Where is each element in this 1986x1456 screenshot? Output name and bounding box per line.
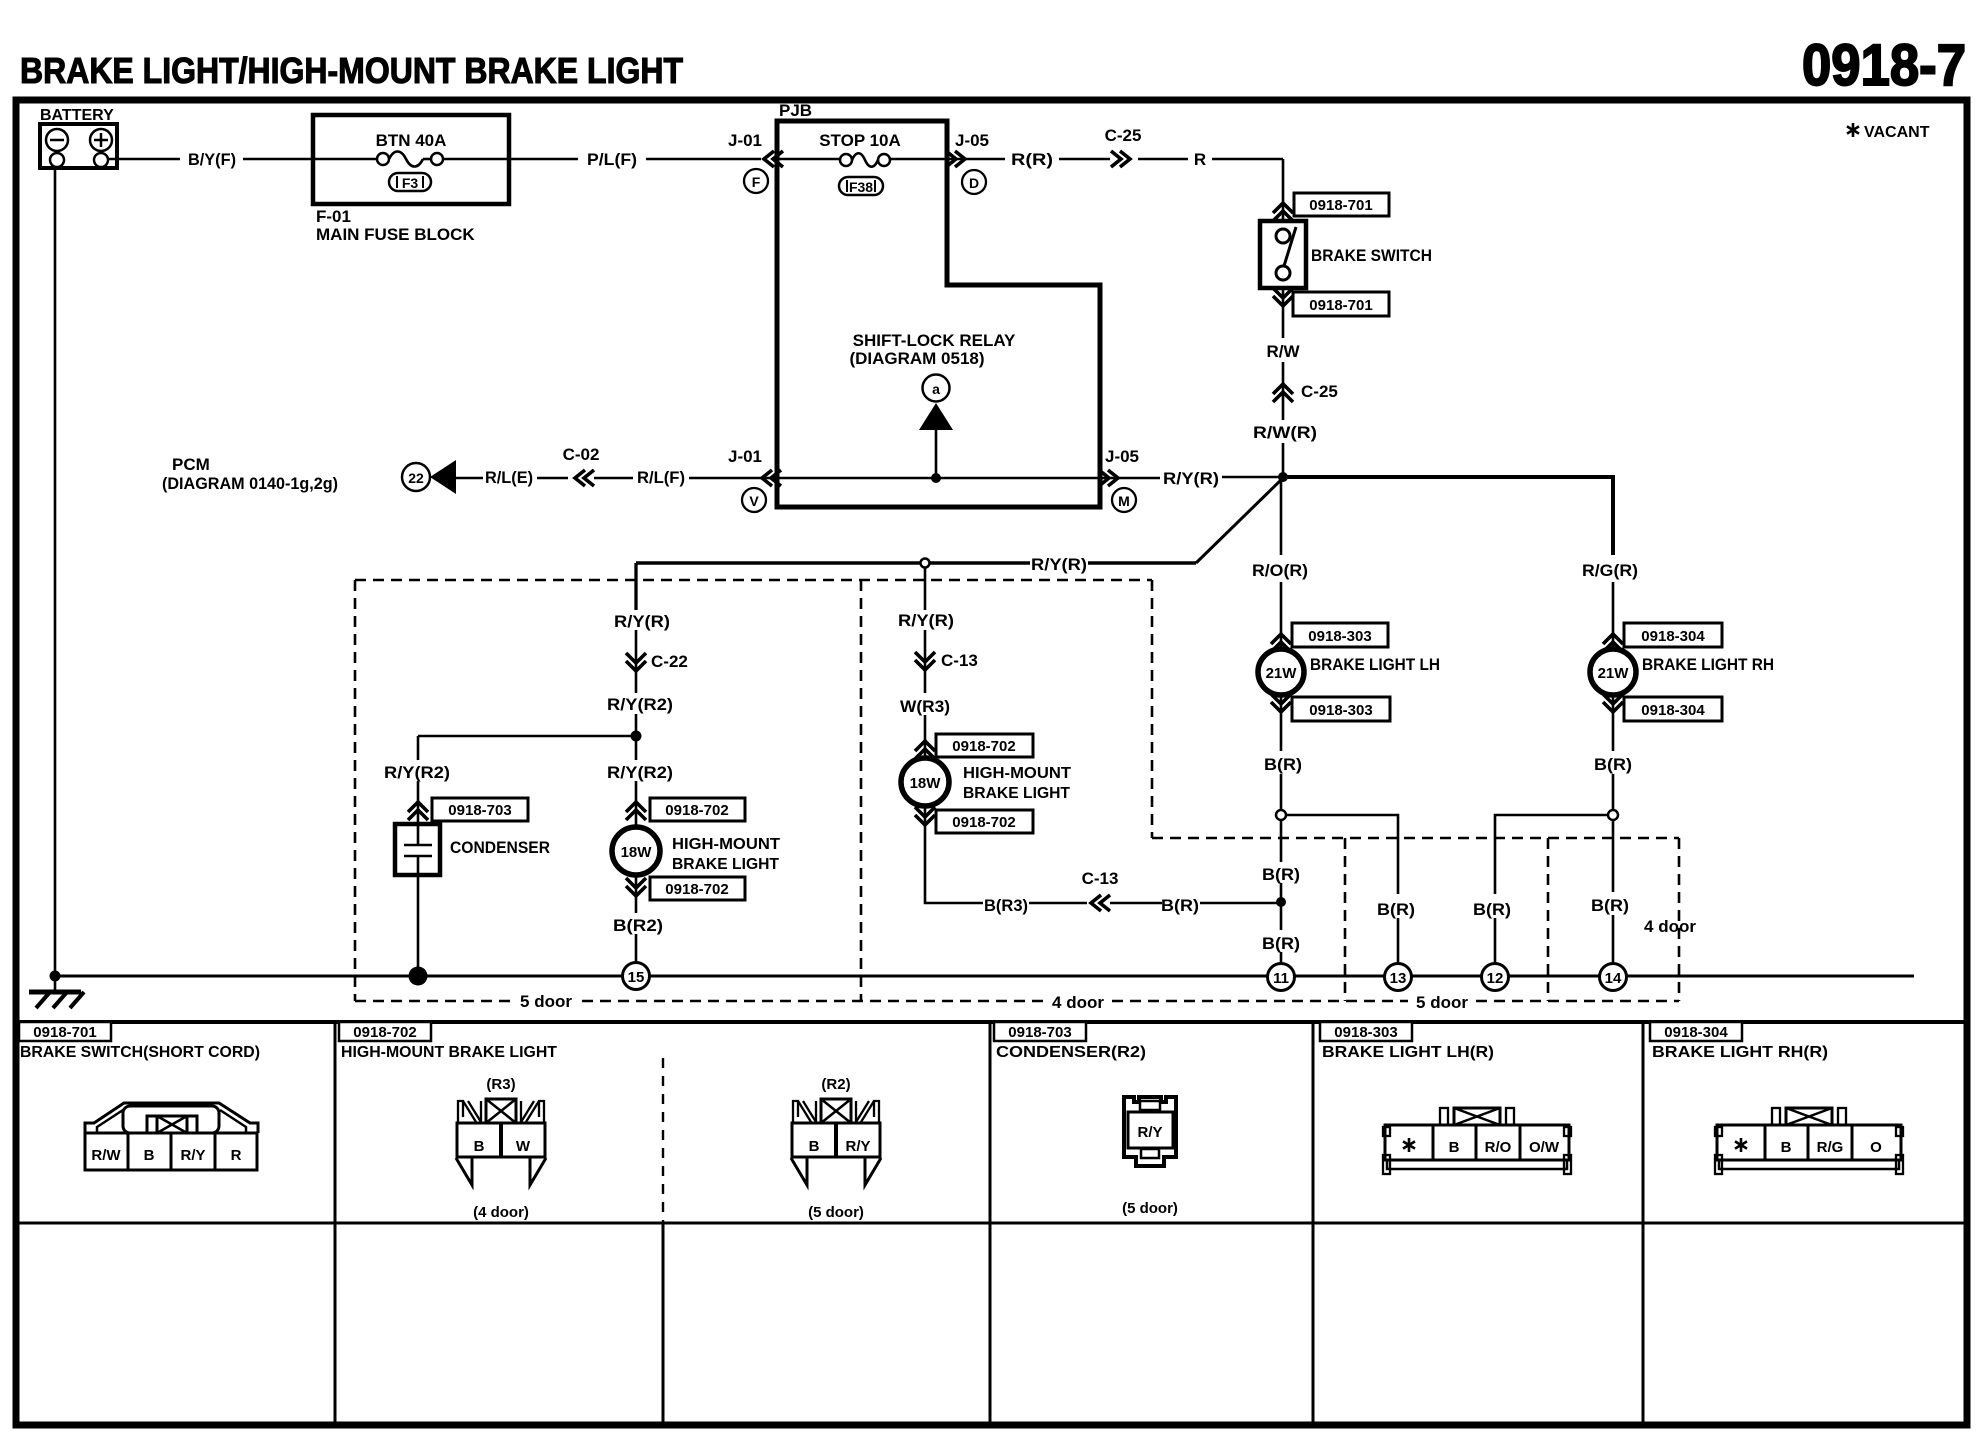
svg-text:(4 door): (4 door) [473,1204,529,1221]
wire B(R3) [925,806,983,903]
svg-text:B(R): B(R) [1377,900,1415,919]
wire battery minus to ground [54,167,57,976]
svg-text:R/W: R/W [91,1147,121,1164]
svg-text:(DIAGRAM 0518): (DIAGRAM 0518) [849,349,984,368]
svg-text:12: 12 [1487,970,1504,987]
wire condenser to ground [417,875,420,967]
connector marker 0918-701 above switch [1273,203,1293,221]
svg-text:J-05: J-05 [1105,447,1139,466]
brake switch [1260,221,1306,288]
trunk wire to brake light RH [1283,477,1613,555]
junction big dot ground [409,967,428,986]
wire R/L(E) [456,477,483,480]
svg-text:CONDENSER: CONDENSER [450,838,550,857]
svg-text:BRAKE LIGHT: BRAKE LIGHT [963,785,1070,802]
dashed vertical x1679 [1678,838,1681,1001]
table mid divider [16,1222,1967,1225]
terminal 13 [1385,964,1412,991]
wire across PJB [777,477,1100,480]
connector drawing brake light RH [1715,1108,1903,1174]
table label 0918-303 [1320,1022,1412,1041]
svg-text:B(R): B(R) [1473,900,1511,919]
svg-text:(5 door): (5 door) [1122,1200,1178,1217]
svg-text:21W: 21W [1598,665,1630,682]
svg-text:MAIN FUSE BLOCK: MAIN FUSE BLOCK [316,225,475,244]
fuse label F3 [389,173,431,191]
svg-text:B(R): B(R) [1262,865,1300,884]
connector label 0918-702 lower [650,877,745,900]
wire P/L(F) [509,158,578,161]
svg-text:W: W [516,1138,531,1155]
svg-text:(R3): (R3) [486,1076,515,1093]
svg-text:CONDENSER(R2): CONDENSER(R2) [996,1044,1146,1061]
svg-text:BRAKE LIGHT LH(R): BRAKE LIGHT LH(R) [1322,1044,1494,1061]
svg-text:R/G: R/G [1817,1139,1844,1156]
node open circle junction [921,559,930,568]
svg-text:PJB: PJB [779,101,812,120]
svg-text:R/Y(R): R/Y(R) [1031,555,1087,574]
table dashed divider x=663 upper half [662,1058,664,1223]
svg-text:O: O [1870,1139,1882,1156]
svg-text:M: M [1118,493,1130,509]
svg-text:C-02: C-02 [563,445,600,464]
main fuse block F-01 [313,115,509,204]
wire R/Y(R) horizontal feed [636,561,921,565]
ground bus wire [55,975,1914,978]
svg-text:STOP 10A: STOP 10A [819,131,901,150]
table column divider x=1313 [1312,1022,1315,1425]
svg-text:R(R): R(R) [1011,150,1053,169]
wire R down to brake switch [1282,159,1285,221]
svg-text:0918-303: 0918-303 [1308,628,1371,645]
svg-text:0918-304: 0918-304 [1664,1024,1728,1041]
node open circle RH [1608,810,1618,820]
svg-text:BRAKE LIGHT: BRAKE LIGHT [672,856,779,873]
svg-text:0918-703: 0918-703 [448,802,511,819]
svg-text:R/L(F): R/L(F) [637,468,685,487]
svg-text:0918-701: 0918-701 [33,1024,96,1041]
lamp 21W brake light LH [1258,649,1304,695]
svg-text:a: a [932,381,940,397]
svg-text:F3: F3 [402,175,419,191]
svg-text:B(R2): B(R2) [613,916,663,935]
svg-text:4 door: 4 door [1644,917,1696,936]
svg-text:0918-702: 0918-702 [353,1024,416,1041]
svg-text:R: R [1194,150,1206,169]
junction dot relay [931,473,941,483]
junction dot B(R) [1276,897,1286,907]
svg-text:R/Y: R/Y [1137,1124,1162,1141]
node open circle LH [1276,810,1286,820]
connector C-22 [626,653,646,671]
svg-text:R/Y(R2): R/Y(R2) [384,763,450,782]
svg-text:R/W(R): R/W(R) [1253,423,1317,442]
diagonal wire to R/Y(R) feed [1196,478,1283,563]
table label 0918-701 [19,1022,111,1041]
svg-text:B(R): B(R) [1161,896,1199,915]
svg-text:B: B [474,1138,485,1155]
svg-text:R/O(R): R/O(R) [1252,561,1308,580]
dashed horizontal y838 [1152,837,1679,840]
junction R/W(R)+R/Y(R) [1278,472,1288,482]
wire B(R) RH [1612,695,1615,751]
table label 0918-702 [339,1022,431,1041]
svg-text:5 door: 5 door [1416,993,1468,1012]
svg-text:F-01: F-01 [316,207,351,226]
connector label 0918-703 [432,798,528,821]
wire R/Y(R) branch 4door [924,567,927,610]
wire R/Y(R) [1100,477,1160,480]
svg-text:0918-304: 0918-304 [1641,628,1705,645]
wire B(R2) [635,875,638,913]
dashed bottom with labels [355,1000,510,1003]
fuse BTN 40A symbol [313,158,377,161]
svg-text:C-25: C-25 [1301,382,1338,401]
connector label 0918-303 upper [1292,623,1388,647]
dashed vertical x1152 [1151,580,1154,838]
svg-text:BRAKE LIGHT/HIGH-MOUNT BRAKE L: BRAKE LIGHT/HIGH-MOUNT BRAKE LIGHT [20,50,683,91]
svg-text:18W: 18W [621,844,653,861]
node 22 PCM pin [402,463,430,491]
svg-text:(R2): (R2) [821,1076,850,1093]
svg-text:15: 15 [628,969,645,986]
ground symbol [54,976,57,991]
connector label 0918-303 lower [1292,697,1390,721]
table label 0918-703 [994,1022,1086,1041]
svg-text:B(R): B(R) [1262,934,1300,953]
terminal 11 [1268,964,1295,991]
connector label 0918-702 [650,798,745,821]
fuse label F38 [839,177,883,195]
svg-text:HIGH-MOUNT: HIGH-MOUNT [672,836,780,853]
wire battery to fuse block B/Y(F) [108,158,180,161]
svg-text:F38: F38 [849,179,873,195]
svg-text:J-05: J-05 [955,131,989,150]
dashed vertical x1548 [1547,838,1550,1001]
svg-text:BRAKE LIGHT LH: BRAKE LIGHT LH [1310,655,1440,674]
dashed vertical x861 [860,580,863,1001]
svg-text:C-25: C-25 [1105,126,1142,145]
wire branch to terminal 12 [1495,815,1608,894]
arrow into PCM [430,460,456,494]
svg-text:0918-702: 0918-702 [952,738,1015,755]
svg-text:R/W: R/W [1266,342,1300,361]
connector label 0918-304 lower [1624,697,1722,721]
table column divider x=990 [989,1022,992,1425]
wire to condenser [418,735,636,738]
svg-text:BRAKE SWITCH: BRAKE SWITCH [1311,246,1432,265]
svg-text:J-01: J-01 [728,131,762,150]
svg-text:R/Y(R): R/Y(R) [1163,469,1219,488]
svg-text:B(R): B(R) [1594,755,1632,774]
svg-text:B/Y(F): B/Y(F) [188,150,236,169]
terminal 12 [1482,964,1509,991]
svg-text:R/L(E): R/L(E) [485,468,533,487]
svg-text:0918-703: 0918-703 [1008,1024,1071,1041]
svg-text:0918-702: 0918-702 [665,802,728,819]
connector drawing brake light LH [1383,1108,1571,1174]
svg-text:J-01: J-01 [728,447,762,466]
svg-text:C-13: C-13 [1082,869,1119,888]
wire R/W [1282,288,1285,338]
svg-text:0918-303: 0918-303 [1309,702,1372,719]
svg-text:VACANT: VACANT [1864,124,1930,141]
svg-text:R/O: R/O [1485,1139,1512,1156]
svg-text:B(R): B(R) [1264,755,1302,774]
wire B(R) LH to junction [1280,820,1283,862]
terminal 14 [1600,964,1627,991]
svg-text:B(R3): B(R3) [984,896,1028,915]
svg-text:C-13: C-13 [941,651,978,670]
svg-text:0918-701: 0918-701 [1309,297,1372,314]
svg-text:4 door: 4 door [1052,993,1104,1012]
table column divider x=1643 [1642,1022,1645,1425]
svg-text:B: B [1449,1139,1460,1156]
svg-text:SHIFT-LOCK RELAY: SHIFT-LOCK RELAY [853,331,1016,350]
table label 0918-304 [1650,1022,1742,1041]
wire R(R) [947,158,1005,161]
lamp 18W high-mount brake light 5door [612,827,660,875]
svg-text:C-22: C-22 [651,652,688,671]
svg-text:R/Y: R/Y [180,1147,205,1164]
svg-text:B: B [1781,1139,1792,1156]
svg-text:0918-304: 0918-304 [1641,702,1705,719]
svg-text:BATTERY: BATTERY [40,107,114,124]
svg-text:11: 11 [1273,970,1289,987]
svg-text:R/G(R): R/G(R) [1582,561,1638,580]
svg-text:(DIAGRAM 0140-1g,2g): (DIAGRAM 0140-1g,2g) [162,474,338,493]
svg-text:B(R): B(R) [1591,896,1629,915]
terminal 15 [623,963,650,990]
svg-text:(5 door): (5 door) [808,1204,864,1221]
svg-text:0918-702: 0918-702 [665,881,728,898]
svg-text:BRAKE LIGHT RH(R): BRAKE LIGHT RH(R) [1652,1044,1828,1061]
lamp 18W high-mount brake light 4door [901,758,949,806]
connector drawing condenser [1124,1097,1176,1166]
svg-text:R/Y(R): R/Y(R) [898,611,954,630]
connector label 0918-702 lower [936,810,1033,833]
connector C-13 [915,652,935,670]
svg-text:F: F [752,174,761,190]
wire R/Y(R2) to 18W 5door [635,736,638,760]
junction dot condenser branch [631,731,642,742]
table column divider x=335 [334,1022,337,1425]
svg-text:HIGH-MOUNT BRAKE LIGHT: HIGH-MOUNT BRAKE LIGHT [341,1044,557,1061]
lamp 21W brake light RH [1590,649,1636,695]
wire R/O(R) brake light LH [1280,477,1283,555]
svg-text:BRAKE SWITCH(SHORT CORD): BRAKE SWITCH(SHORT CORD) [20,1044,260,1061]
svg-text:R/Y(R): R/Y(R) [614,612,670,631]
wire R/Y(R) branch 5door [634,563,637,610]
svg-text:BTN 40A: BTN 40A [376,131,447,150]
wire B(R) RH to terminal 14 [1612,820,1615,892]
svg-text:18W: 18W [910,775,942,792]
fuse STOP 10A [777,158,840,161]
svg-text:22: 22 [408,470,424,486]
svg-text:O/W: O/W [1529,1139,1560,1156]
svg-text:B: B [144,1147,155,1164]
svg-text:R/Y(R2): R/Y(R2) [607,695,673,714]
svg-text:R: R [231,1147,242,1164]
svg-text:0918-702: 0918-702 [952,814,1015,831]
svg-text:PCM: PCM [172,455,210,474]
table top divider [16,1020,1967,1024]
connector label 0918-702 [936,734,1033,757]
svg-text:R/Y: R/Y [845,1138,870,1155]
svg-text:HIGH-MOUNT: HIGH-MOUNT [963,765,1071,782]
dashed vertical x355 [354,580,357,1001]
junction dot battery ground [50,971,61,982]
wire branch to terminal 13 [1286,815,1398,894]
svg-text:13: 13 [1390,970,1407,987]
svg-text:B: B [809,1138,820,1155]
svg-text:0918-7: 0918-7 [1802,33,1966,98]
connector drawing high-mount brake light (R2) [791,1099,881,1185]
vacant note [1847,123,1859,137]
svg-text:21W: 21W [1266,665,1298,682]
svg-text:0918-701: 0918-701 [1309,197,1372,214]
connector label 0918-304 upper [1624,623,1722,647]
connector marker 0918-701 below switch [1273,288,1293,306]
svg-text:W(R3): W(R3) [900,697,950,716]
svg-text:D: D [969,175,979,191]
svg-text:P/L(F): P/L(F) [587,150,637,169]
connector C-25 crossing [1273,384,1293,402]
dashed vertical x1345 [1344,838,1347,1001]
svg-text:0918-303: 0918-303 [1334,1024,1397,1041]
svg-text:5 door: 5 door [520,992,572,1011]
connector drawing high-mount brake light (R3) [456,1099,546,1185]
condenser [395,824,440,875]
svg-text:R/Y(R2): R/Y(R2) [607,763,673,782]
table column divider x=663 lower half [662,1223,665,1425]
dashed 5door/4door zone top [355,579,1152,582]
svg-text:14: 14 [1605,970,1622,987]
connector drawing brake switch 0918-701 [85,1103,258,1170]
wire B(R) LH [1280,695,1283,751]
svg-text:BRAKE LIGHT RH: BRAKE LIGHT RH [1642,655,1774,674]
svg-text:V: V [749,493,759,509]
